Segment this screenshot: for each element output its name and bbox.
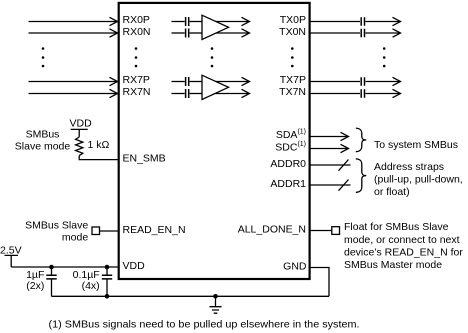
arrowhead TX0N internal [242, 29, 250, 37]
wire C to buffer U1b [190, 81, 202, 83]
wire RX7P input [29, 81, 118, 83]
ellipsis left outside [42, 47, 45, 67]
wire C to buffer U1a [190, 21, 202, 23]
wire ALL_DONE_N to square [310, 230, 332, 232]
ellipsis inside left column [135, 47, 138, 67]
wire TX7P output [310, 81, 360, 83]
strap slash ADDR0 [339, 160, 349, 171]
junction node ground [213, 294, 218, 299]
capacitor C1 lead bottom [51, 279, 53, 296]
arrowhead RX7N [110, 89, 118, 97]
svg-text:mode, or connect to next: mode, or connect to next [344, 234, 460, 246]
svg-text:(4x): (4x) [82, 280, 100, 292]
svg-text:mode: mode [62, 232, 88, 244]
wire buffer out TX0P [212, 21, 249, 23]
wire SDC [310, 148, 348, 150]
strap slash ADDR1 [339, 180, 349, 191]
svg-text:VDD: VDD [123, 260, 146, 272]
ellipsis right outside [383, 47, 386, 67]
wire buffer out TX7N [212, 93, 249, 95]
arrowhead TX0P internal [242, 17, 250, 25]
svg-text:RX0P: RX0P [123, 14, 150, 26]
capacitor C1 plates [46, 275, 56, 279]
junction node C2 top [105, 265, 110, 270]
wire RX0N to C [172, 32, 185, 34]
capacitor C1 1uF lead top [51, 267, 53, 275]
svg-text:RX7P: RX7P [123, 74, 150, 86]
svg-text:TX0N: TX0N [279, 26, 306, 38]
svg-text:Address straps: Address straps [374, 161, 444, 173]
svg-text:SMBus: SMBus [26, 129, 60, 141]
arrowhead TX7N internal [242, 89, 250, 97]
wire ADDR1 strap [310, 184, 351, 186]
arrowhead SDA [341, 132, 349, 140]
wire TX7P to arrow [365, 81, 399, 83]
svg-text:SMBus Master mode: SMBus Master mode [344, 259, 442, 271]
svg-text:(1) SMBus signals need to be p: (1) SMBus signals need to be pulled up e… [49, 318, 360, 330]
svg-text:TX7N: TX7N [279, 86, 306, 98]
wire RX7P to C [172, 81, 185, 83]
arrowhead TX7P out [393, 77, 401, 85]
wire C to buffer U1b lower [190, 93, 202, 95]
capacitor C external TX0N [361, 29, 364, 37]
wire RX7N to C [172, 93, 185, 95]
wire GND pin to bus [310, 268, 329, 297]
op-amp buffer U1b [202, 75, 229, 99]
arrowhead TX0P out [393, 17, 401, 25]
capacitor C2 lead bottom [106, 279, 108, 296]
arrowhead RX7P [110, 77, 118, 85]
svg-text:(pull-up, pull-down,: (pull-up, pull-down, [374, 174, 463, 186]
svg-text:RX0N: RX0N [123, 26, 151, 38]
svg-text:EN_SMB: EN_SMB [123, 152, 166, 164]
wire SDA [310, 136, 348, 138]
wire buffer out TX0N [212, 32, 249, 34]
junction node C2 bottom [105, 294, 110, 299]
svg-text:or float): or float) [374, 186, 410, 198]
wire ADDR0 strap [310, 164, 351, 166]
svg-text:2.5V: 2.5V [0, 245, 22, 257]
svg-text:GND: GND [283, 260, 307, 272]
ellipsis inside right column [291, 47, 294, 67]
wire buffer out TX7P [212, 81, 249, 83]
wire RX7N input [29, 93, 118, 95]
svg-text:device’s READ_EN_N for: device’s READ_EN_N for [344, 246, 463, 258]
connector square ALL_DONE_N [332, 227, 340, 235]
capacitor C2 plates [102, 275, 112, 279]
capacitor C external TX0P [361, 17, 364, 25]
brace address straps [356, 159, 367, 193]
power VDD symbol [71, 129, 88, 137]
resistor R1 1k [76, 137, 83, 156]
wire TX7N output [310, 93, 360, 95]
capacitor C internal RX7N [186, 89, 189, 98]
op-amp buffer U1a [202, 15, 229, 39]
capacitor C external TX7N [361, 89, 364, 97]
svg-text:TX0P: TX0P [280, 14, 306, 26]
svg-text:ALL_DONE_N: ALL_DONE_N [238, 224, 306, 236]
svg-text:VDD: VDD [70, 117, 93, 129]
arrowhead TX7N out [393, 89, 401, 97]
svg-text:READ_EN_N: READ_EN_N [123, 224, 186, 236]
svg-text:ADDR0: ADDR0 [270, 158, 306, 170]
svg-text:RX7N: RX7N [123, 86, 151, 98]
capacitor C internal RX0P [186, 17, 189, 26]
capacitor C internal RX7P [186, 77, 189, 86]
capacitor C external TX7P [361, 77, 364, 85]
svg-text:TX7P: TX7P [280, 74, 306, 86]
wire RX0N input [29, 32, 118, 34]
capacitor C internal RX0N [186, 29, 189, 38]
svg-text:ADDR1: ADDR1 [270, 178, 306, 190]
arrowhead TX0N out [393, 29, 401, 37]
arrowhead RX0P [110, 17, 118, 25]
svg-text:(2x): (2x) [26, 280, 44, 292]
svg-text:Slave mode: Slave mode [15, 141, 71, 153]
svg-text:Float for SMBus Slave: Float for SMBus Slave [344, 221, 449, 233]
ellipsis inside middle column [211, 47, 214, 67]
connector square READ_EN_N [92, 227, 100, 235]
wire RX0P to C1 [172, 21, 185, 23]
wire TX7N to arrow [365, 93, 399, 95]
wire square to READ_EN_N pin [100, 230, 119, 232]
power 2.5V symbol [5, 255, 19, 267]
wire TX0N output [310, 32, 360, 34]
svg-text:SMBus Slave: SMBus Slave [25, 219, 88, 231]
arrowhead RX0N [110, 29, 118, 37]
wire ground return bus [52, 295, 330, 297]
svg-text:1 kΩ: 1 kΩ [88, 139, 110, 151]
device U1 body [119, 3, 310, 279]
ground symbol [210, 296, 222, 313]
capacitor C2 0.1uF lead top [106, 267, 108, 275]
wire TX0P output [310, 21, 360, 23]
arrowhead SDC [341, 144, 349, 152]
svg-text:To system SMBus: To system SMBus [374, 139, 458, 151]
wire TX0P to arrow [365, 21, 399, 23]
wire VDD rail to pin [11, 266, 118, 268]
wire C to buffer U1a lower [190, 32, 202, 34]
wire TX0N to arrow [365, 32, 399, 34]
junction node C1 top [49, 265, 54, 270]
wire RX0P input [29, 21, 118, 23]
brace SMBus group [356, 128, 367, 152]
arrowhead TX7P internal [242, 77, 250, 85]
wire R1 to EN_SMB pin [79, 156, 118, 160]
